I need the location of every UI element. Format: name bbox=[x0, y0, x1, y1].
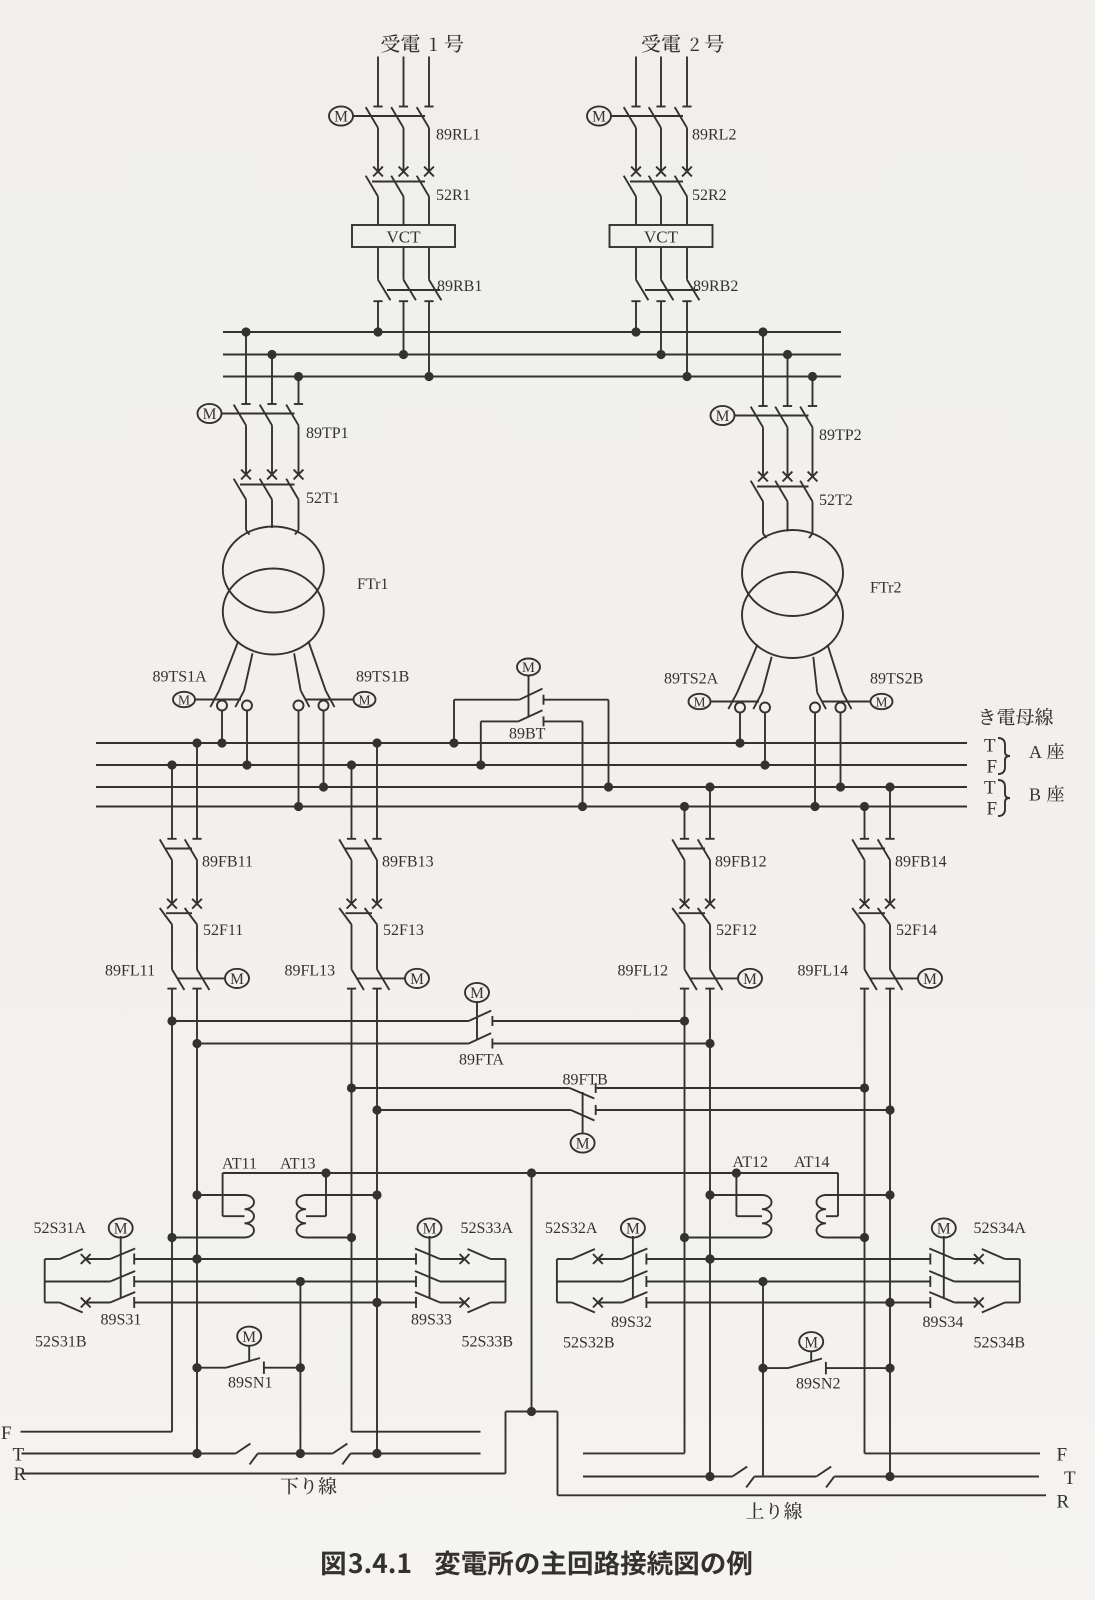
svg-text:M: M bbox=[114, 1221, 128, 1238]
svg-text:M: M bbox=[875, 694, 887, 709]
svg-text:52S34B: 52S34B bbox=[974, 1335, 1026, 1352]
svg-text:89S31: 89S31 bbox=[101, 1312, 142, 1329]
svg-text:52S32B: 52S32B bbox=[563, 1335, 615, 1352]
svg-text:M: M bbox=[923, 971, 937, 988]
svg-text:AT12: AT12 bbox=[733, 1154, 769, 1171]
svg-text:89S33: 89S33 bbox=[411, 1312, 452, 1329]
svg-text:52T2: 52T2 bbox=[819, 492, 853, 509]
svg-text:89RL2: 89RL2 bbox=[692, 127, 736, 144]
svg-text:FTr1: FTr1 bbox=[357, 576, 388, 593]
svg-text:M: M bbox=[804, 1334, 818, 1351]
svg-text:52S33B: 52S33B bbox=[462, 1334, 514, 1351]
svg-text:89FL14: 89FL14 bbox=[798, 963, 849, 980]
svg-text:M: M bbox=[522, 660, 535, 676]
svg-text:M: M bbox=[937, 1221, 951, 1238]
svg-text:52F14: 52F14 bbox=[896, 922, 937, 939]
svg-text:52R1: 52R1 bbox=[436, 187, 471, 204]
svg-text:89RB2: 89RB2 bbox=[693, 278, 738, 295]
svg-text:M: M bbox=[230, 971, 244, 988]
svg-text:89TP2: 89TP2 bbox=[819, 427, 862, 444]
svg-text:89FTA: 89FTA bbox=[459, 1052, 504, 1069]
svg-text:M: M bbox=[242, 1329, 256, 1346]
svg-text:M: M bbox=[576, 1136, 590, 1153]
svg-text:52F11: 52F11 bbox=[203, 922, 243, 939]
svg-text:89FL11: 89FL11 bbox=[105, 963, 155, 980]
svg-text:F: F bbox=[987, 799, 998, 820]
svg-text:89S34: 89S34 bbox=[923, 1314, 964, 1331]
svg-text:AT11: AT11 bbox=[222, 1156, 257, 1173]
svg-text:M: M bbox=[334, 109, 348, 126]
svg-text:89FB14: 89FB14 bbox=[895, 854, 947, 871]
svg-text:T: T bbox=[1064, 1468, 1076, 1489]
svg-text:F: F bbox=[1057, 1445, 1068, 1466]
svg-text:89TS1B: 89TS1B bbox=[356, 669, 409, 686]
svg-text:AT14: AT14 bbox=[794, 1154, 830, 1171]
svg-text:89FL13: 89FL13 bbox=[285, 963, 336, 980]
svg-text:89TS2A: 89TS2A bbox=[664, 671, 719, 688]
svg-text:T: T bbox=[13, 1445, 25, 1466]
svg-text:VCT: VCT bbox=[387, 228, 422, 247]
svg-text:89RL1: 89RL1 bbox=[436, 127, 480, 144]
svg-text:89SN2: 89SN2 bbox=[796, 1376, 840, 1393]
svg-text:52R2: 52R2 bbox=[692, 187, 727, 204]
svg-text:B: B bbox=[1029, 785, 1041, 805]
svg-text:52F12: 52F12 bbox=[716, 922, 757, 939]
svg-text:89TP1: 89TP1 bbox=[306, 425, 349, 442]
svg-text:89TS2B: 89TS2B bbox=[870, 671, 923, 688]
svg-text:M: M bbox=[693, 694, 705, 709]
svg-text:52T1: 52T1 bbox=[306, 490, 340, 507]
svg-text:M: M bbox=[716, 408, 730, 425]
svg-text:M: M bbox=[626, 1221, 640, 1238]
svg-text:M: M bbox=[410, 971, 424, 988]
svg-text:R: R bbox=[1057, 1492, 1070, 1513]
svg-text:89FB12: 89FB12 bbox=[715, 854, 767, 871]
svg-text:AT13: AT13 bbox=[280, 1156, 316, 1173]
svg-text:89FB13: 89FB13 bbox=[382, 854, 434, 871]
svg-text:89BT: 89BT bbox=[509, 726, 546, 743]
svg-text:52S31A: 52S31A bbox=[34, 1220, 87, 1237]
svg-text:M: M bbox=[470, 985, 484, 1002]
svg-text:89FL12: 89FL12 bbox=[618, 963, 669, 980]
svg-text:89SN1: 89SN1 bbox=[228, 1375, 272, 1392]
svg-text:M: M bbox=[423, 1221, 437, 1238]
svg-text:M: M bbox=[743, 971, 757, 988]
svg-text:VCT: VCT bbox=[644, 228, 679, 247]
svg-text:M: M bbox=[178, 692, 190, 707]
svg-text:FTr2: FTr2 bbox=[870, 580, 901, 597]
svg-text:89FTB: 89FTB bbox=[563, 1072, 608, 1089]
svg-text:F: F bbox=[987, 757, 998, 778]
svg-text:52S32A: 52S32A bbox=[545, 1220, 598, 1237]
svg-text:M: M bbox=[203, 406, 217, 423]
svg-text:89S32: 89S32 bbox=[611, 1314, 652, 1331]
svg-text:52S31B: 52S31B bbox=[35, 1334, 87, 1351]
svg-text:89FB11: 89FB11 bbox=[202, 854, 253, 871]
svg-text:89TS1A: 89TS1A bbox=[153, 669, 208, 686]
svg-text:52F13: 52F13 bbox=[383, 922, 424, 939]
svg-text:89RB1: 89RB1 bbox=[437, 278, 482, 295]
svg-text:A: A bbox=[1029, 742, 1042, 762]
svg-text:T: T bbox=[984, 736, 996, 757]
svg-text:F: F bbox=[1, 1423, 12, 1444]
svg-text:M: M bbox=[358, 692, 370, 707]
svg-text:M: M bbox=[592, 109, 606, 126]
svg-text:52S34A: 52S34A bbox=[974, 1220, 1027, 1237]
svg-text:T: T bbox=[984, 778, 996, 799]
svg-text:52S33A: 52S33A bbox=[461, 1220, 514, 1237]
svg-text:R: R bbox=[14, 1464, 27, 1485]
